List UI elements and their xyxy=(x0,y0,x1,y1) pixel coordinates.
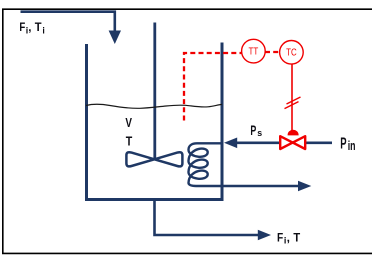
svg-text:P: P xyxy=(250,122,256,138)
svg-text:T: T xyxy=(126,135,133,149)
svg-text:F: F xyxy=(277,230,283,244)
svg-text:T: T xyxy=(35,22,42,34)
svg-text:in: in xyxy=(348,139,356,153)
svg-text:i: i xyxy=(42,26,44,36)
svg-text:T: T xyxy=(293,230,300,244)
svg-text:F: F xyxy=(19,22,25,34)
svg-text:TT: TT xyxy=(249,46,259,57)
svg-text:P: P xyxy=(340,136,346,153)
svg-text:,: , xyxy=(28,22,31,34)
svg-text:,: , xyxy=(287,230,290,244)
svg-text:V: V xyxy=(125,116,132,130)
svg-text:TC: TC xyxy=(286,48,297,59)
svg-text:s: s xyxy=(257,128,262,139)
